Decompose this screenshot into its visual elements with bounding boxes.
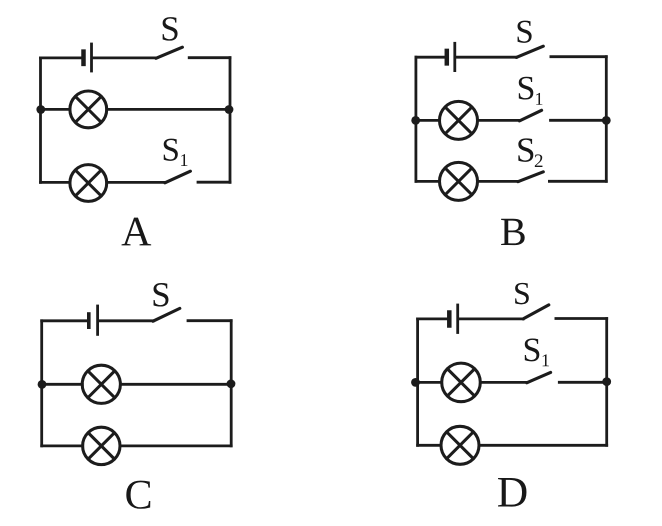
switch S (D) blade <box>523 305 549 319</box>
wire: C bottom branch left <box>42 444 83 447</box>
wire: D top-left segment <box>418 317 448 320</box>
battery B (cell) short plate <box>445 51 450 64</box>
node: B left junction dot <box>411 116 420 125</box>
wire: A bottom-right segment <box>198 181 230 184</box>
lamp L2 (B bottom branch) <box>440 162 478 200</box>
label: switch S1 (circuit D) <box>525 338 540 361</box>
wire: A bottom branch middle <box>107 181 165 184</box>
wire: A bottom branch left <box>41 181 71 184</box>
wire: B middle branch left <box>416 119 440 122</box>
battery D (cell) long plate <box>456 305 459 333</box>
lamp L1 (B middle branch) <box>440 101 478 139</box>
battery A (cell) short plate <box>81 52 86 64</box>
wire: A right rail <box>229 58 232 183</box>
lamp L2 (D bottom branch) <box>441 426 479 464</box>
wire: D middle branch right <box>559 381 606 384</box>
lamp L1 (A middle branch) <box>70 91 107 128</box>
wire: D top middle segment <box>459 317 523 320</box>
label: circuit letter B <box>501 219 525 245</box>
wire: B bottom branch middle <box>478 180 519 183</box>
switch S (A) blade <box>156 47 183 58</box>
lamp L1 (C middle branch) <box>82 365 120 403</box>
battery C (cell) short plate <box>87 314 91 327</box>
wire: D left rail <box>416 319 419 445</box>
battery C (cell) long plate <box>96 306 99 334</box>
switch S (B) blade <box>516 46 543 57</box>
wire: A top-right segment <box>189 56 230 59</box>
wire: D bottom branch right <box>479 444 607 447</box>
switch S2 (B) blade <box>518 172 543 182</box>
node: D left junction dot <box>411 378 420 387</box>
wire: B top-left segment <box>416 56 445 59</box>
wire: C top-right segment <box>188 319 231 322</box>
label: circuit letter A <box>122 218 152 246</box>
switch S1 (D) blade <box>527 372 551 382</box>
node: D right junction dot <box>602 377 611 386</box>
wire: B right rail <box>605 57 608 182</box>
label: switch S1 (circuit B) <box>519 77 534 100</box>
wire: D middle branch middle <box>480 381 527 384</box>
wire: C middle branch left <box>42 383 83 386</box>
switch S (C) blade <box>153 308 180 321</box>
label: switch S (circuit B) <box>518 21 532 43</box>
lamp L1 (D middle branch) <box>442 363 481 402</box>
node: C left junction dot <box>38 380 47 389</box>
wire: B top-right segment <box>551 55 606 58</box>
node: C right junction dot <box>227 379 236 388</box>
wire: B left rail <box>414 57 417 181</box>
wire: D middle branch left <box>418 381 442 384</box>
lamp L2 (C bottom branch) <box>83 427 120 464</box>
wire: A middle branch left <box>41 108 71 111</box>
wire: A left rail <box>39 58 42 182</box>
wire: D right rail <box>605 319 608 446</box>
wire: B middle branch right <box>551 119 607 122</box>
wire: A top-left segment <box>41 57 82 60</box>
label: switch S (circuit C) <box>154 283 169 307</box>
label: circuit letter D <box>498 478 526 507</box>
wire: C left rail <box>40 321 43 446</box>
node: B right junction dot <box>602 116 611 125</box>
battery A (cell) long plate <box>90 44 93 71</box>
wire: C right rail <box>230 321 233 446</box>
wire: B bottom-right segment <box>549 180 606 183</box>
label: switch S (circuit A) <box>163 17 178 41</box>
battery B (cell) long plate <box>453 43 456 70</box>
wire: B middle branch middle <box>478 119 520 122</box>
wire: B bottom branch left <box>416 180 440 183</box>
switch S1 (B) blade <box>520 110 542 121</box>
switch S1 (A) blade <box>165 171 191 183</box>
wire: D bottom branch left <box>418 444 441 447</box>
wire: A middle branch right <box>107 108 230 111</box>
wire: D top-right segment <box>556 317 607 320</box>
lamp L2 (A bottom branch) <box>70 165 107 202</box>
label: switch S (circuit D) <box>515 283 529 305</box>
wire: C top-left segment <box>42 319 87 322</box>
node: A right junction dot <box>225 105 234 114</box>
wire: A top middle segment <box>93 57 156 60</box>
node: A left junction dot <box>36 105 45 114</box>
label: switch S1 (circuit A) <box>164 139 178 161</box>
label: circuit letter C <box>126 481 150 509</box>
wire: C middle branch right <box>120 383 231 386</box>
wire: C top middle segment <box>99 319 153 322</box>
battery D (cell) short plate <box>447 313 452 326</box>
wire: C bottom branch right <box>120 444 231 447</box>
label: switch S2 (circuit B) <box>518 138 533 162</box>
wire: B top middle segment <box>456 56 516 59</box>
